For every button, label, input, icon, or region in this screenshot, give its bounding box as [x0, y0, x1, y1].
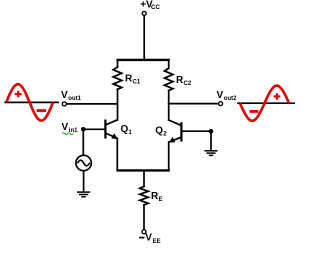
svg-text:out1: out1: [68, 96, 81, 102]
svg-text:Q: Q: [121, 124, 129, 135]
svg-text:V: V: [62, 122, 69, 133]
svg-text:V: V: [145, 233, 152, 244]
svg-text:Q: Q: [155, 125, 163, 136]
svg-text:V: V: [61, 90, 68, 101]
svg-text:out2: out2: [224, 96, 237, 102]
svg-text:C1: C1: [133, 79, 141, 85]
svg-text:CC: CC: [151, 4, 160, 11]
svg-text:C2: C2: [184, 81, 192, 87]
svg-text:in1: in1: [69, 128, 78, 134]
svg-text:V: V: [217, 90, 224, 101]
svg-text:E: E: [159, 197, 163, 203]
svg-text:EE: EE: [153, 239, 161, 245]
